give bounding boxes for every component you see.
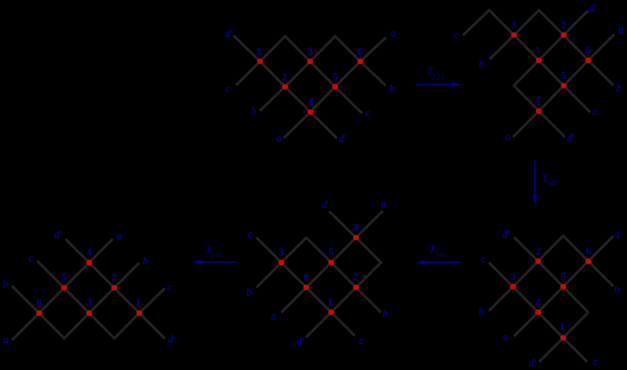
crossing 2 of diagram bottom-middle (red dot): [353, 285, 359, 291]
svg-text:5: 5: [561, 272, 566, 283]
svg-text:3: 3: [512, 21, 517, 32]
svg-text:2: 2: [354, 273, 359, 284]
crossing 5 of diagram top-middle (red dot): [332, 84, 338, 90]
svg-text:6: 6: [586, 46, 591, 57]
svg-text:145: 145: [546, 179, 558, 188]
wire a of diagram bottom-middle: [281, 211, 382, 312]
svg-text:c: c: [453, 30, 458, 41]
svg-text:b: b: [246, 287, 251, 298]
svg-text:3: 3: [279, 248, 284, 259]
svg-text:d: d: [567, 133, 573, 144]
svg-text:b: b: [389, 84, 394, 95]
crossing 2 of diagram top-right (red dot): [561, 32, 567, 38]
svg-text:a: a: [614, 230, 619, 241]
wiring diagram bottom-left: [12, 239, 165, 340]
svg-text:a: a: [271, 311, 276, 322]
svg-text:6: 6: [358, 47, 363, 58]
crossing 5 of diagram bottom-right (red dot): [560, 284, 566, 290]
svg-text:6: 6: [304, 273, 309, 284]
arrow T_345 (bottom right, pointing left): [424, 261, 460, 263]
wiring diagram top-right: [463, 10, 614, 137]
svg-text:5: 5: [62, 273, 67, 284]
wire b of diagram bottom-middle: [256, 238, 381, 313]
svg-text:a: a: [3, 335, 8, 346]
svg-text:c: c: [226, 84, 231, 95]
crossing 2 of diagram bottom-right (red dot): [535, 258, 541, 264]
crossing 6 of diagram bottom-right (red dot): [585, 258, 591, 264]
wire a of diagram top-middle: [284, 37, 386, 138]
svg-text:b: b: [251, 107, 256, 118]
wire b of diagram bottom-left: [12, 263, 139, 339]
svg-text:1: 1: [256, 47, 261, 58]
crossing 3 of diagram bottom-right (red dot): [510, 284, 516, 290]
svg-text:1: 1: [136, 298, 141, 309]
svg-text:a: a: [390, 29, 395, 40]
wire d of diagram bottom-left: [66, 239, 165, 339]
wiring diagram bottom-middle: [256, 211, 382, 338]
svg-text:2: 2: [282, 73, 287, 84]
crossing 3 of diagram top-right (red dot): [511, 32, 517, 38]
svg-text:246: 246: [210, 251, 222, 260]
crossing 3 of diagram bottom-left (red dot): [86, 310, 92, 316]
svg-text:c: c: [167, 282, 172, 293]
crossing 6 of diagram bottom-middle (red dot): [303, 285, 309, 291]
wire d of diagram top-middle: [234, 35, 337, 138]
svg-text:d: d: [168, 335, 174, 346]
arrow T_246 (bottom left, pointing left): [200, 261, 236, 263]
crossing 6 of diagram top-middle (red dot): [357, 59, 363, 65]
svg-text:4: 4: [535, 95, 540, 106]
svg-text:a: a: [506, 132, 511, 143]
crossing 2 of diagram top-middle (red dot): [282, 84, 288, 90]
svg-text:d: d: [54, 230, 60, 241]
crossing 2 of diagram bottom-left (red dot): [111, 285, 117, 291]
crossing 1 of diagram top-right (red dot): [536, 58, 542, 64]
svg-text:5: 5: [333, 72, 338, 83]
svg-text:2: 2: [536, 247, 541, 258]
arrow T_123 (top, pointing right): [415, 84, 452, 86]
svg-text:b: b: [478, 307, 483, 318]
svg-text:a: a: [618, 25, 623, 36]
svg-text:5: 5: [561, 71, 566, 82]
crossing 5 of diagram top-right (red dot): [561, 83, 567, 89]
svg-text:c: c: [247, 230, 252, 241]
wire b of diagram top-middle: [260, 36, 386, 111]
wire c of diagram bottom-left: [37, 261, 165, 338]
svg-text:b: b: [479, 60, 484, 71]
crossing 6 of diagram bottom-left (red dot): [36, 310, 42, 316]
svg-text:5: 5: [329, 248, 334, 259]
svg-text:a: a: [503, 332, 508, 343]
wire d of diagram bottom-middle: [306, 211, 381, 338]
svg-text:b: b: [143, 256, 148, 267]
svg-text:c: c: [593, 107, 598, 118]
crossing 3 of diagram bottom-middle (red dot): [278, 260, 284, 266]
svg-text:4: 4: [309, 96, 314, 107]
svg-text:4: 4: [536, 297, 541, 308]
svg-text:123: 123: [432, 73, 444, 82]
crossing 5 of diagram bottom-left (red dot): [61, 285, 67, 291]
crossing 1 of diagram bottom-left (red dot): [136, 310, 142, 316]
svg-text:b: b: [2, 280, 7, 291]
svg-text:c: c: [359, 336, 364, 347]
svg-text:d: d: [321, 200, 327, 211]
svg-text:d: d: [225, 29, 231, 40]
svg-text:c: c: [593, 357, 598, 368]
wire a of diagram bottom-right: [514, 236, 613, 336]
svg-text:6: 6: [586, 246, 591, 257]
crossing 1 of diagram top-middle (red dot): [257, 59, 263, 65]
svg-text:d: d: [297, 337, 303, 348]
svg-text:c: c: [366, 108, 371, 119]
svg-text:b: b: [616, 83, 621, 94]
svg-text:b: b: [382, 309, 387, 320]
svg-text:6: 6: [37, 298, 42, 309]
label T_145: [541, 172, 558, 188]
svg-text:4: 4: [87, 247, 92, 258]
crossing 4 of diagram bottom-middle (red dot): [353, 235, 359, 241]
label T_345: [429, 244, 447, 259]
svg-text:3: 3: [511, 272, 516, 283]
svg-text:d: d: [529, 358, 535, 369]
svg-text:d: d: [339, 134, 345, 145]
crossing 6 of diagram top-right (red dot): [585, 58, 591, 64]
wire c of diagram top-middle: [236, 36, 362, 113]
svg-text:4: 4: [354, 223, 359, 234]
svg-text:d: d: [589, 3, 595, 14]
wire b of diagram bottom-right: [489, 236, 613, 311]
svg-text:a: a: [117, 232, 122, 243]
crossing 4 of diagram top-right (red dot): [536, 108, 542, 114]
label T_246: [205, 244, 222, 260]
svg-text:a: a: [276, 134, 281, 145]
wire a of diagram top-right: [513, 34, 614, 137]
wire c of diagram top-right: [463, 10, 590, 112]
wire d of diagram top-right: [514, 11, 588, 138]
wire c of diagram bottom-right: [489, 263, 587, 362]
svg-text:1: 1: [328, 297, 333, 308]
wire b of diagram top-right: [490, 10, 614, 85]
svg-text:b: b: [614, 284, 619, 295]
svg-text:3: 3: [308, 47, 313, 58]
svg-text:c: c: [481, 254, 486, 265]
wire d of diagram bottom-right: [514, 237, 588, 362]
svg-text:a: a: [381, 199, 386, 210]
svg-text:3: 3: [87, 298, 92, 309]
arrow T_145 (right, pointing down): [534, 161, 536, 197]
svg-text:2: 2: [112, 273, 117, 284]
wire a of diagram bottom-left: [12, 239, 113, 340]
wiring diagram bottom-right: [489, 236, 613, 362]
svg-text:1: 1: [560, 322, 565, 333]
crossing 1 of diagram bottom-right (red dot): [560, 335, 566, 341]
svg-text:1: 1: [535, 46, 540, 57]
crossing 4 of diagram top-middle (red dot): [307, 109, 313, 115]
label T_123: [427, 66, 445, 81]
wiring diagram top-middle: [234, 35, 387, 138]
svg-text:345: 345: [435, 251, 447, 260]
crossing 5 of diagram bottom-middle (red dot): [328, 260, 334, 266]
wire c of diagram bottom-middle: [256, 238, 354, 336]
svg-text:d: d: [502, 229, 508, 240]
crossing 4 of diagram bottom-left (red dot): [86, 260, 92, 266]
crossing 4 of diagram bottom-right (red dot): [535, 309, 541, 315]
svg-text:c: c: [29, 253, 34, 264]
svg-text:2: 2: [561, 21, 566, 32]
crossing 1 of diagram bottom-middle (red dot): [328, 309, 334, 315]
crossing 3 of diagram top-middle (red dot): [307, 59, 313, 65]
